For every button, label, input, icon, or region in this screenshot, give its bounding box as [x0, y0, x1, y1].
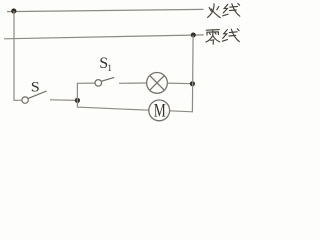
switch S blade: [28, 91, 46, 98]
label 零线 (neutral wire): [206, 29, 239, 44]
node B: junction dot on right vertical: [190, 81, 195, 86]
svg-text:M: M: [154, 102, 166, 122]
label 火线 (live wire): [208, 3, 240, 17]
wire: lamp to node B: [167, 82, 192, 85]
wire: neutral wire (second horizontal): [4, 35, 204, 39]
motor M circle: [149, 100, 170, 121]
lamp (circle with X): [147, 73, 168, 94]
switch S1 terminal circle: [95, 80, 102, 87]
node: junction dot on live wire: [11, 8, 16, 13]
node: junction dot on neutral wire: [191, 33, 196, 38]
wire: right vertical from neutral wire down, then left to motor: [170, 35, 194, 112]
wire: switch S1 to lamp: [119, 82, 147, 84]
node A: junction dot: [75, 98, 80, 103]
wire: switch S to junction node A: [50, 99, 77, 102]
switch S terminal circle: [22, 97, 28, 103]
wire: left vertical from live wire down to switch S: [14, 11, 22, 100]
switch S1 blade: [102, 77, 115, 81]
svg-text:1: 1: [107, 64, 112, 74]
svg-text:S: S: [31, 79, 40, 95]
wire: node A up and right to switch S1: [77, 83, 95, 100]
wire: node A down and right to motor: [77, 100, 148, 110]
wire: live wire (top horizontal): [7, 9, 204, 11]
